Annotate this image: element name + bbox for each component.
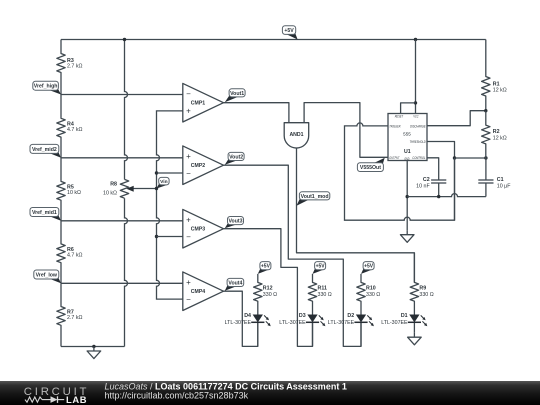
flag Vref_high: [33, 81, 61, 94]
flag +5V branch1: [258, 262, 271, 274]
svg-text:330 Ω: 330 Ω: [419, 292, 433, 298]
wire U1 DISCHARGE to R1: [427, 111, 486, 126]
svg-text:Vref_mid2: Vref_mid2: [32, 147, 57, 153]
op-amp CMP2: [183, 146, 224, 185]
resistor R1: [482, 40, 507, 111]
junction Vin-CMP2: [155, 171, 183, 174]
junction threshold-trigger: [453, 156, 456, 159]
node Vref_low wire: [61, 282, 183, 284]
svg-text:12 kΩ: 12 kΩ: [493, 135, 507, 141]
resistor R9: [410, 253, 434, 315]
svg-text:OUTPUT: OUTPUT: [389, 156, 400, 160]
resistor R8 potentiometer: [103, 179, 156, 198]
wire U1 CONTROL to C2: [427, 158, 439, 180]
resistor R5: [57, 158, 81, 221]
wire D3 bottom: [312, 323, 314, 346]
svg-text:10 kΩ: 10 kΩ: [67, 190, 81, 196]
resistor R7: [57, 283, 83, 346]
svg-text:Vout1_mod: Vout1_mod: [301, 194, 329, 200]
capacitor C2: [416, 177, 446, 197]
flag Vref_mid1: [30, 208, 61, 221]
svg-text:D3: D3: [299, 313, 306, 319]
flag Vout4: [225, 278, 244, 290]
resistor R10: [357, 274, 381, 315]
svg-text:330 Ω: 330 Ω: [263, 292, 277, 298]
flag +5V main: [282, 26, 297, 40]
svg-text:RESET: RESET: [395, 115, 404, 119]
svg-text:DISCHARGE: DISCHARGE: [410, 124, 426, 128]
footer credit text: [105, 381, 347, 400]
wire U1 GND stem: [406, 161, 408, 231]
svg-text:CMP3: CMP3: [191, 227, 206, 233]
wire D4 bottom: [257, 323, 259, 346]
svg-text:Vref_mid1: Vref_mid1: [32, 210, 57, 216]
svg-text:Vref_high: Vref_high: [34, 84, 58, 90]
wire U1 TRIGGER net: [345, 123, 455, 220]
ground under D1: [408, 333, 422, 345]
svg-text:+5V: +5V: [316, 264, 326, 270]
junction R2C1 top: [484, 156, 487, 159]
svg-text:R10: R10: [366, 286, 376, 292]
diode D3 LED: [279, 313, 325, 326]
svg-text:VCC: VCC: [413, 115, 419, 119]
resistor R2: [482, 111, 507, 158]
svg-text:AND1: AND1: [289, 132, 303, 138]
svg-text:CMP2: CMP2: [191, 163, 206, 169]
flag +5V branch2: [313, 262, 326, 274]
resistor R6: [57, 221, 83, 283]
svg-text:LAB: LAB: [66, 394, 87, 405]
junction Vin-CMP3: [155, 235, 183, 238]
svg-text:330 Ω: 330 Ω: [318, 292, 332, 298]
svg-text:D4: D4: [244, 313, 251, 319]
svg-text:2.7 kΩ: 2.7 kΩ: [67, 64, 82, 70]
wire U1 RESET: [401, 103, 416, 114]
logo CIRCUIT LAB: [24, 386, 89, 405]
svg-text:+5V: +5V: [284, 28, 294, 34]
svg-text:4.7 kΩ: 4.7 kΩ: [67, 127, 82, 133]
svg-text:CONTROL: CONTROL: [412, 156, 425, 160]
ground under U1: [400, 230, 414, 242]
flag Vin: [157, 177, 170, 188]
flag Vref_low: [34, 270, 61, 283]
svg-text:http://circuitlab.com/cb257sn2: http://circuitlab.com/cb257sn28b73k: [105, 391, 249, 401]
diode D1 LED: [381, 313, 427, 326]
flag Vout1: [225, 89, 245, 102]
flag Vout3: [225, 217, 244, 229]
wire U1 VCC to rail: [415, 40, 417, 114]
svg-text:+: +: [186, 278, 191, 287]
svg-text:+: +: [186, 152, 191, 161]
wire bottom chain: [61, 346, 125, 348]
flag +5V branch3: [361, 262, 374, 274]
wire threshold down: [454, 158, 456, 220]
op-amp CMP4: [183, 272, 224, 311]
svg-text:R2: R2: [493, 129, 500, 135]
svg-text:LTL-307EE: LTL-307EE: [381, 320, 408, 326]
diode D2 LED: [328, 313, 374, 326]
svg-text:Vout1: Vout1: [230, 91, 244, 97]
svg-text:−: −: [186, 295, 191, 304]
node Vref_mid1 wire: [61, 220, 183, 222]
svg-text:+: +: [186, 216, 191, 225]
svg-text:GND: GND: [404, 157, 409, 161]
flag Vref_mid2: [30, 144, 61, 157]
gate AND1: [284, 123, 309, 148]
flag Vout2: [225, 152, 244, 164]
footer bar: [0, 381, 540, 405]
svg-text:R12: R12: [263, 286, 273, 292]
svg-text:Vin: Vin: [160, 179, 168, 185]
capacitor C1: [478, 158, 511, 197]
svg-text:R11: R11: [318, 286, 327, 292]
junction top rail x415: [414, 38, 417, 41]
svg-text:10 kΩ: 10 kΩ: [103, 191, 117, 197]
svg-text:R8: R8: [110, 181, 117, 187]
svg-text:Vout2: Vout2: [229, 154, 243, 160]
svg-text:10 nF: 10 nF: [416, 184, 430, 190]
flag Vout1_mod: [297, 192, 330, 206]
svg-text:LTL-307EE: LTL-307EE: [328, 320, 355, 326]
junction gnd rail: [406, 195, 409, 198]
svg-text:THRESHOLD: THRESHOLD: [410, 140, 426, 144]
svg-text:4.7 kΩ: 4.7 kΩ: [67, 252, 82, 258]
wire D2 bottom: [360, 323, 362, 346]
svg-text:2.7 kΩ: 2.7 kΩ: [67, 315, 82, 321]
svg-text:C2: C2: [423, 177, 430, 183]
svg-text:U1: U1: [404, 149, 411, 155]
svg-text:CMP1: CMP1: [191, 101, 206, 107]
ground bottom-left: [87, 345, 101, 359]
op-amp CMP3: [183, 209, 224, 248]
svg-text:TRIGGER: TRIGGER: [389, 124, 401, 128]
wire AND1 output bus Vout1_mod: [297, 148, 415, 283]
svg-text:−: −: [186, 169, 191, 178]
wire U1 THRESHOLD: [427, 142, 455, 159]
svg-text:−: −: [186, 90, 191, 99]
diode D4 LED: [225, 313, 271, 326]
svg-text:+: +: [186, 106, 191, 115]
junction C2 gnd: [437, 195, 440, 198]
svg-text:LTL-307EE: LTL-307EE: [225, 320, 252, 326]
flag V555Out: [357, 158, 384, 172]
svg-text:+5V: +5V: [261, 264, 271, 270]
junction top rail x124: [123, 38, 126, 41]
svg-text:Vout3: Vout3: [228, 219, 242, 225]
resistor R12: [254, 274, 278, 315]
svg-text:D2: D2: [347, 313, 354, 319]
svg-text:CMP4: CMP4: [191, 289, 206, 295]
junction U1 reset-vcc: [414, 101, 417, 104]
wire CMP2 out bus: [224, 165, 362, 346]
svg-text:R9: R9: [419, 286, 426, 292]
node Vref_high wire: [61, 94, 183, 96]
svg-text:LTL-307EE: LTL-307EE: [279, 320, 306, 326]
svg-text:330 Ω: 330 Ω: [366, 292, 380, 298]
svg-text:Vref_low: Vref_low: [36, 273, 58, 279]
wire AND1 input B from 555 OUTPUT: [304, 103, 388, 158]
wire CMP1 out to AND1 input A: [224, 103, 289, 123]
ic U1 555 box: [388, 114, 427, 161]
wire R8 bus lower: [125, 198, 128, 346]
svg-text:555: 555: [403, 132, 411, 137]
wire R8 bus upper: [125, 40, 128, 180]
wire Vin bus: [157, 111, 183, 299]
svg-text:D1: D1: [401, 313, 408, 319]
svg-text:C1: C1: [497, 177, 504, 183]
wire +5V top rail: [61, 39, 486, 41]
svg-text:10 µF: 10 µF: [497, 184, 511, 190]
node Vref_mid2 wire: [61, 157, 183, 159]
junction R1 bottom: [484, 109, 487, 112]
svg-text:R1: R1: [493, 81, 500, 87]
resistor R3: [57, 40, 83, 95]
svg-text:−: −: [186, 232, 191, 241]
wire gnd rail: [407, 194, 486, 197]
resistor R4: [57, 95, 83, 158]
wire CMP3 out bus: [224, 229, 313, 347]
svg-text:Vout4: Vout4: [228, 280, 242, 286]
svg-text:12 kΩ: 12 kΩ: [493, 88, 507, 94]
wire threshold to R2C1: [455, 157, 486, 159]
svg-text:+5V: +5V: [364, 264, 374, 270]
wire CMP4 out bus: [224, 291, 258, 346]
junction Vin-wiper: [155, 187, 158, 190]
svg-text:V555Out: V555Out: [360, 165, 381, 171]
op-amp CMP1: [183, 83, 224, 122]
resistor R11: [308, 274, 332, 315]
wire D1 to ground: [413, 323, 415, 333]
